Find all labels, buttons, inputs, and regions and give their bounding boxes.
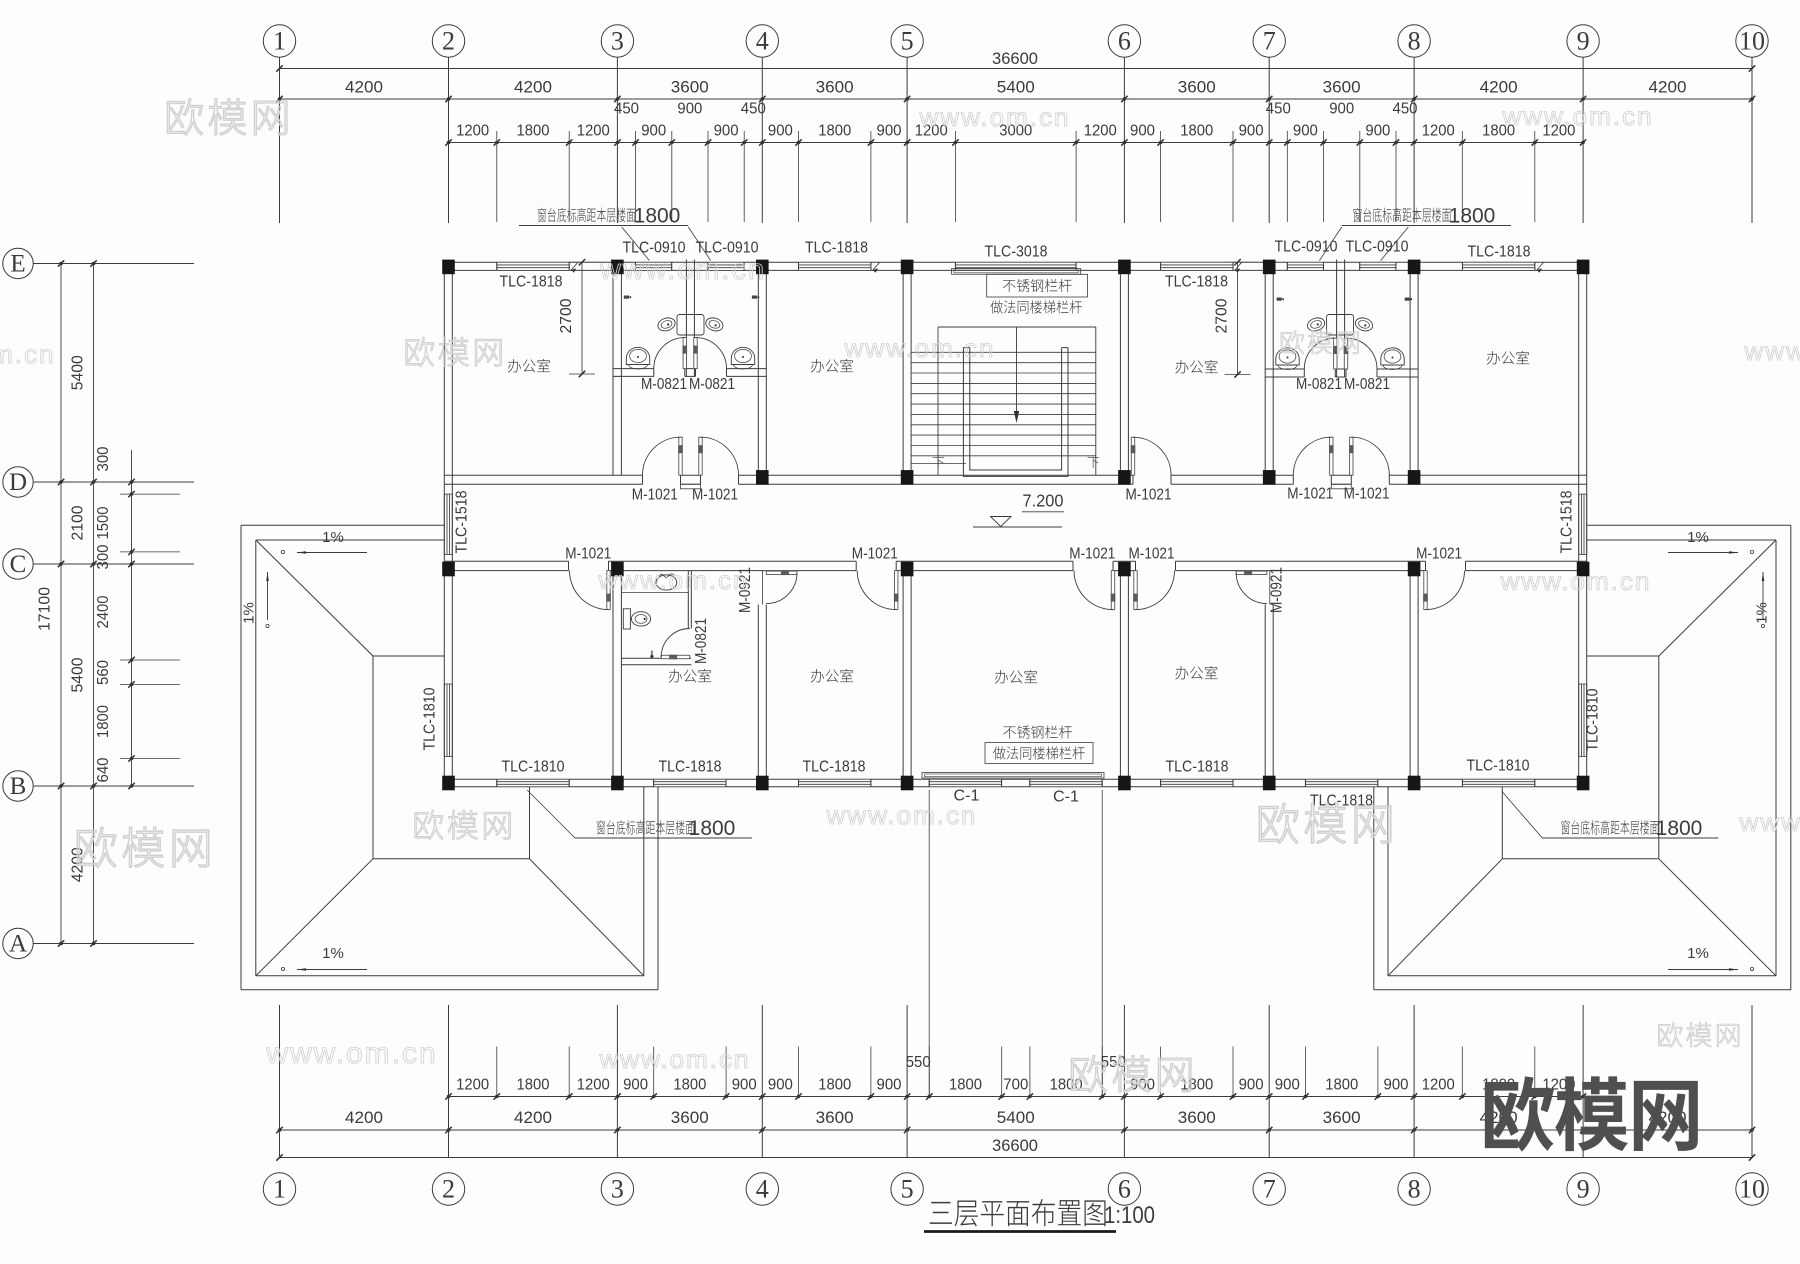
svg-text:560: 560 [95,660,112,685]
window band [1287,261,1323,263]
svg-text:900: 900 [1384,1077,1409,1094]
svg-text:1%: 1% [322,529,344,546]
svg-text:6: 6 [1118,27,1131,56]
roof right wing eave outer [1587,524,1791,526]
window TLC-1518 east corridor [1578,494,1580,554]
svg-text:9: 9 [1577,1175,1590,1204]
svg-text:3600: 3600 [671,1108,709,1127]
svg-text:TLC-1810: TLC-1810 [1585,688,1602,751]
svg-text:TLC-1818: TLC-1818 [500,274,563,291]
stair landing rail TLC-3018 [952,269,1081,275]
rail note box [987,274,1088,297]
svg-text:17100: 17100 [37,587,54,631]
svg-text:5: 5 [901,1175,914,1204]
wall: lower band corridor side [444,560,568,562]
svg-text:5400: 5400 [70,355,87,390]
svg-text:1: 1 [273,27,286,56]
site logo [1485,1076,1554,1151]
svg-text:450: 450 [614,101,639,118]
svg-text:M-1021: M-1021 [1126,487,1172,504]
svg-text:900: 900 [641,123,666,140]
svg-text:TLC-1810: TLC-1810 [502,759,565,776]
svg-text:900: 900 [768,123,793,140]
svg-text:TLC-1810: TLC-1810 [422,687,439,750]
svg-text:1%: 1% [1754,602,1771,624]
svg-text:36600: 36600 [992,49,1038,68]
svg-text:6: 6 [1118,1175,1131,1204]
sill annotation bottom-left [597,820,605,835]
watermark [1071,1056,1106,1093]
svg-text:TLC-0910: TLC-0910 [1346,239,1409,256]
svg-text:900: 900 [714,123,739,140]
window band [497,261,569,263]
window band [1161,778,1233,780]
svg-text:TLC-1818: TLC-1818 [803,759,866,776]
roof right wing hips [1659,540,1776,656]
svg-text:M-1021: M-1021 [852,546,898,563]
door M-0921 partition col7 [1269,571,1271,605]
svg-text:TLC-1818: TLC-1818 [659,759,722,776]
svg-text:www.om.cn: www.om.cn [919,102,1071,132]
columns row C [442,562,455,577]
svg-text:1500: 1500 [95,506,112,539]
door M-1021 room C [895,571,898,610]
partition col7 upper [1264,270,1266,475]
svg-text:2: 2 [442,27,455,56]
svg-text:M-0821: M-0821 [1296,376,1342,393]
partition col8 lower [1409,571,1411,780]
svg-text:2: 2 [442,1175,455,1204]
svg-text:1800: 1800 [949,1077,982,1094]
svg-text:www.om.cn: www.om.cn [844,333,996,363]
wall: upper band north facade [444,261,497,263]
window band [708,261,744,263]
columns row E [442,260,455,275]
svg-text:M-0821: M-0821 [689,376,735,393]
svg-text:B: B [10,773,27,800]
svg-text:900: 900 [1130,123,1155,140]
sill annotation top-right [1353,208,1361,223]
watermark [1658,1022,1682,1047]
window TLC-1518 west corridor [443,494,445,554]
door M-1021 room G [1424,571,1427,610]
svg-text:TLC-1518: TLC-1518 [454,490,471,553]
window band [929,778,1001,780]
svg-text:900: 900 [1293,123,1318,140]
window TLC-1810 west lower [443,684,445,757]
svg-text:TLC-1818: TLC-1818 [1165,274,1228,291]
title [930,1202,952,1224]
watermark [77,827,116,867]
window band [1305,778,1377,780]
svg-text:4200: 4200 [514,1108,552,1127]
svg-text:7.200: 7.200 [1023,491,1064,511]
door M-1021 room E [1134,571,1137,610]
svg-text:2400: 2400 [95,595,112,628]
svg-text:M-1021: M-1021 [692,487,738,504]
svg-text:1200: 1200 [456,1077,489,1094]
svg-text:640: 640 [95,757,112,782]
roof right wing ridge flat [1587,655,1659,657]
window band [799,778,871,780]
svg-text:A: A [9,931,27,958]
svg-text:2700: 2700 [558,298,575,333]
svg-text:D: D [9,469,27,496]
svg-text:450: 450 [1266,101,1291,118]
svg-text:1800: 1800 [818,1077,851,1094]
door M-1021 office col6-7 [1131,437,1134,475]
svg-text:C: C [10,551,27,578]
svg-text:1200: 1200 [1422,123,1455,140]
room B floor drain [650,655,653,658]
svg-text:4200: 4200 [1649,78,1687,97]
wall: upper band corridor side [444,474,642,476]
svg-text:1800: 1800 [1325,1077,1358,1094]
svg-text:1%: 1% [241,602,258,624]
svg-text:900: 900 [1239,123,1264,140]
window sill flags [571,262,578,270]
window band [654,778,726,780]
door M-1021 vestibule right-2 [1350,437,1353,475]
svg-text:1800: 1800 [818,123,851,140]
wash basin UR-a [1276,348,1299,365]
svg-text:M-1021: M-1021 [632,487,678,504]
door M-1021 room D [1111,571,1114,610]
svg-text:www.om.cn: www.om.cn [598,565,750,595]
sill annotation bottom-right [1561,820,1569,835]
svg-text:TLC-1818: TLC-1818 [1468,244,1531,261]
dim 2700 left [581,262,583,374]
svg-text:900: 900 [877,1077,902,1094]
wall: upper toilets south, left block [613,368,654,370]
svg-text:1800: 1800 [1449,205,1496,228]
stair down label right [1088,457,1100,468]
svg-text:www.om.cn: www.om.cn [1500,566,1652,596]
window band [497,778,569,780]
svg-text:10: 10 [1739,27,1765,56]
svg-text:450: 450 [1393,101,1418,118]
svg-text:5400: 5400 [997,1108,1035,1127]
svg-text:M-1021: M-1021 [1129,546,1175,563]
svg-text:4200: 4200 [514,78,552,97]
watermark [406,337,434,366]
svg-text:900: 900 [1239,1077,1264,1094]
window band [955,261,1076,263]
partition col5 upper stair west [902,270,904,475]
svg-text:www.om.cn: www.om.cn [826,800,978,830]
svg-text:3600: 3600 [816,1108,854,1127]
svg-text:900: 900 [1275,1077,1300,1094]
squat pan UL-b [704,316,725,333]
svg-text:www.om.cn: www.om.cn [265,1037,437,1070]
partition col4 upper [757,270,759,475]
columns row D [756,470,769,485]
svg-text:900: 900 [768,1077,793,1094]
partition col3 lower [612,571,614,780]
svg-text:1200: 1200 [456,123,489,140]
partition col6 lower [1119,571,1121,780]
wash basin UR-b [1381,348,1404,365]
svg-text:1%: 1% [1687,945,1709,962]
svg-text:1200: 1200 [577,123,610,140]
door M-0821 room B toilet [661,655,690,658]
svg-text:3600: 3600 [671,78,709,97]
window band [799,261,871,263]
svg-text:1200: 1200 [1084,123,1117,140]
room B toilet WC [623,609,630,629]
squat platform UL [677,315,704,336]
svg-text:900: 900 [732,1077,757,1094]
partition col6 upper stair east [1119,270,1121,475]
svg-text:E: E [10,251,25,278]
svg-text:TLC-1810: TLC-1810 [1467,758,1530,775]
svg-text:900: 900 [877,123,902,140]
stair center railing (U) [963,348,1068,477]
svg-text:900: 900 [1365,123,1390,140]
svg-text:1: 1 [273,1175,286,1204]
svg-text:M-0821: M-0821 [641,376,687,393]
svg-text:1800: 1800 [689,817,736,840]
svg-text:4200: 4200 [345,1108,383,1127]
svg-text:2100: 2100 [70,505,87,540]
svg-text:4: 4 [756,27,769,56]
svg-text:10: 10 [1739,1175,1765,1204]
svg-text:TLC-1818: TLC-1818 [1166,759,1229,776]
svg-text:900: 900 [623,1077,648,1094]
window band [1161,261,1233,263]
roof left wing hips [256,540,373,656]
partition col5 lower [902,571,904,780]
door M-1021 room A [607,571,610,610]
svg-text:3: 3 [611,27,624,56]
svg-text:1200: 1200 [577,1077,610,1094]
watermark [1281,330,1304,354]
svg-text:300: 300 [95,544,112,569]
svg-text:1800: 1800 [517,1077,550,1094]
svg-text:3600: 3600 [1178,78,1216,97]
svg-text:M-1021: M-1021 [1416,546,1462,563]
svg-text:M-1021: M-1021 [1069,546,1115,563]
room B toilet walls [687,571,689,629]
vestibule door thresholds [681,484,701,489]
svg-text:8: 8 [1408,27,1421,56]
door M-1021 vestibule left-1 [679,437,682,475]
watermark [1259,803,1298,843]
svg-text:www.om.cn: www.om.cn [1739,807,1800,837]
partition col4 lower (door gap top) [757,605,759,780]
room B basin [656,575,677,590]
columns row B [442,776,455,791]
svg-text:4200: 4200 [1480,78,1518,97]
svg-text:1800: 1800 [95,705,112,738]
svg-text:5: 5 [901,27,914,56]
svg-text:3600: 3600 [1323,78,1361,97]
roof left wing eave inner [256,539,444,541]
wall: upper toilets south, right block [1265,368,1304,370]
svg-text:M-1021: M-1021 [1344,485,1390,502]
svg-text:700: 700 [1003,1077,1028,1094]
svg-text:www.om.cn: www.om.cn [599,1044,751,1074]
door M-0821 toilet UL-2 [694,338,697,369]
svg-text:TLC-1818: TLC-1818 [805,240,868,257]
svg-text:3600: 3600 [1178,1108,1216,1127]
stair treads [911,351,1096,353]
partition col7 lower (door gap top) [1264,605,1266,780]
C-1 balcony rail [922,773,1104,778]
svg-text:2700: 2700 [1214,298,1231,333]
svg-text:300: 300 [95,446,112,471]
svg-text:www.om.cn: www.om.cn [1502,101,1654,131]
svg-text:9: 9 [1577,27,1590,56]
watermark [415,810,443,839]
room labels [508,359,521,373]
wash basin UL-a [626,347,649,364]
window band [1462,261,1534,263]
tap marks [624,296,629,299]
roof right wing eave inner [1587,539,1776,541]
squat pan UL-a [656,316,677,333]
svg-text:7: 7 [1263,1175,1276,1204]
svg-text:4: 4 [756,1175,769,1204]
watermark [167,99,202,136]
svg-text:M-0921: M-0921 [1269,567,1286,613]
svg-text:1800: 1800 [1656,817,1703,840]
svg-text:1%: 1% [322,945,344,962]
svg-text:www.om.cn: www.om.cn [599,254,766,286]
roof left wing ridge flat [373,655,444,657]
svg-text:4200: 4200 [345,78,383,97]
stair direction arrow [1016,327,1018,412]
squat pan UR-b [1354,316,1375,333]
svg-text:3: 3 [611,1175,624,1204]
svg-text:www.om.cn: www.om.cn [0,339,55,369]
svg-text:www.om.cn: www.om.cn [1744,336,1800,366]
svg-text:1800: 1800 [1180,1077,1213,1094]
partition toilets upper-left [685,260,687,377]
svg-text:C-1: C-1 [1053,789,1079,806]
squat pan UR-a [1306,316,1327,333]
roof left wing eave outer [241,524,444,526]
window TLC-1810 east lower [1578,684,1580,757]
door M-1021 vestibule right-1 [1330,437,1333,475]
dim 2700 right [1237,262,1239,374]
stair boundary [938,326,1096,328]
svg-text:M-0821: M-0821 [1344,376,1390,393]
svg-text:450: 450 [741,101,766,118]
partition col8 upper [1409,270,1411,475]
svg-text:1800: 1800 [1180,123,1213,140]
svg-text:1800: 1800 [634,205,681,228]
wall: lower band south facade [444,778,497,780]
svg-text:M-1021: M-1021 [1287,485,1333,502]
door M-0821 toilet UL-1 [683,338,686,369]
door M-1021 vestibule left-2 [699,437,702,475]
svg-text:1800: 1800 [673,1077,706,1094]
wash basin UL-b [731,347,754,364]
door M-0821 toilet UR-2 [1344,338,1347,369]
window band [1030,778,1102,780]
wall: west exterior [443,262,445,787]
door M-0821 toilet UR-1 [1334,338,1337,369]
partition toilets upper-right [1336,260,1338,378]
svg-text:3600: 3600 [1323,1108,1361,1127]
svg-text:5400: 5400 [997,78,1035,97]
svg-text:36600: 36600 [992,1136,1038,1155]
window band [636,261,672,263]
svg-text:1800: 1800 [517,123,550,140]
svg-text:1:100: 1:100 [1104,1202,1155,1229]
svg-text:TLC-0910: TLC-0910 [1275,239,1338,256]
svg-text:TLC-1518: TLC-1518 [1559,490,1576,553]
partition col3 upper [612,270,614,475]
svg-text:900: 900 [677,101,702,118]
svg-text:3600: 3600 [816,78,854,97]
svg-text:900: 900 [1329,101,1354,118]
svg-text:M-1021: M-1021 [565,546,611,563]
wall: east exterior [1578,262,1580,787]
sill annotation top-left [538,208,546,223]
window band [1462,778,1534,780]
svg-text:8: 8 [1408,1175,1421,1204]
svg-text:550: 550 [906,1054,931,1071]
door M-0921 partition col4 [762,571,764,605]
svg-text:5400: 5400 [70,657,87,692]
svg-text:1%: 1% [1687,529,1709,546]
window band [1360,261,1396,263]
squat platform UR [1327,315,1354,336]
svg-text:TLC-3018: TLC-3018 [985,244,1048,261]
svg-text:7: 7 [1263,27,1276,56]
stair down label left [933,457,945,468]
svg-text:1200: 1200 [1422,1077,1455,1094]
svg-text:M-0821: M-0821 [693,618,710,664]
C-1 rail note [1003,726,1016,738]
